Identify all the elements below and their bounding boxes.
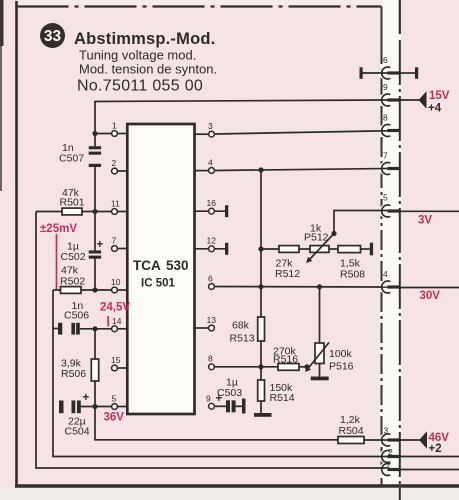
svg-text:IC 501: IC 501 xyxy=(141,278,175,290)
pin 7 xyxy=(118,248,128,250)
module edge white strip xyxy=(380,0,401,500)
wire 30V line right of boundary xyxy=(400,287,459,289)
wire R508 to terminator xyxy=(361,248,370,250)
connector 9 xyxy=(382,94,391,106)
wire R501 to pin 11 xyxy=(82,211,112,213)
svg-text:±25mV: ±25mV xyxy=(40,223,77,235)
frame: left border xyxy=(15,1,18,487)
svg-text:C504: C504 xyxy=(65,426,90,438)
svg-text:15: 15 xyxy=(111,355,121,365)
svg-text:3: 3 xyxy=(208,121,213,131)
wire R502 to pin 10 xyxy=(81,289,112,291)
op-amp IC U501 box TCA 530 xyxy=(127,124,194,414)
pin 13 xyxy=(195,327,209,329)
node pin1/C507 junction xyxy=(92,131,97,136)
pin 16 terminator bar xyxy=(225,205,228,217)
svg-text:R516: R516 xyxy=(273,354,298,366)
wire pin 6 row to connector 4 xyxy=(215,286,388,289)
svg-text:33: 33 xyxy=(44,28,62,45)
svg-text:C506: C506 xyxy=(64,310,89,322)
svg-text:No.75011 055 00: No.75011 055 00 xyxy=(77,78,203,95)
wire R506 column top xyxy=(94,329,96,359)
pin 1 xyxy=(118,133,128,135)
wire P512 wiper node up and right to connector 5 xyxy=(334,211,388,234)
46V supply arrow xyxy=(419,431,427,448)
potentiometer P516 xyxy=(315,343,324,364)
wire P516 column down from pin6 row xyxy=(319,287,321,343)
svg-text:R514: R514 xyxy=(270,392,295,404)
wire R501 row left xyxy=(36,211,62,213)
svg-text:2: 2 xyxy=(388,447,393,457)
svg-text:+: + xyxy=(216,393,223,405)
svg-text:R512: R512 xyxy=(275,268,300,280)
node R501/pin11/C502 junction xyxy=(92,209,97,214)
svg-text:1: 1 xyxy=(112,121,117,131)
potentiometer P516 wiper arrow xyxy=(308,343,329,369)
node pin6 row x261 junction xyxy=(258,284,263,289)
resistor R514 xyxy=(258,380,265,401)
node P512 wiper junction xyxy=(331,231,336,236)
wire C503 to terminator xyxy=(236,405,242,407)
svg-text:13: 13 xyxy=(207,315,217,325)
wire 3V line right of boundary xyxy=(400,210,459,212)
wire AFC line vertical x53 xyxy=(53,290,388,457)
test lead red line xyxy=(56,234,58,289)
wire connector 6 right bar stub xyxy=(400,72,415,74)
capacitor C504 plates xyxy=(59,401,64,414)
wire P512 to R508 xyxy=(329,248,338,250)
resistor R512 xyxy=(279,246,299,253)
node pin8 row x261 junction xyxy=(258,364,263,369)
wire R514 bottom to ground xyxy=(260,401,262,413)
svg-text:9: 9 xyxy=(383,82,388,92)
wire R506 column bottom xyxy=(94,381,96,407)
wire R512 row from column to box xyxy=(261,248,279,250)
svg-text:R501: R501 xyxy=(60,197,85,209)
resistor R506 xyxy=(91,359,98,381)
node R502/pin10 junction xyxy=(92,287,97,292)
pin 6 xyxy=(209,284,215,290)
resistor R502 xyxy=(61,287,82,294)
svg-text:10: 10 xyxy=(111,277,121,287)
frame: top dash-dot border xyxy=(17,5,382,7)
wire P516 bottom to ground xyxy=(319,364,321,377)
svg-text:+: + xyxy=(83,392,90,404)
svg-text:R506: R506 xyxy=(61,368,86,380)
ground below P516 xyxy=(311,377,329,381)
pin 16 xyxy=(195,210,226,212)
svg-text:2: 2 xyxy=(112,158,117,168)
svg-text:+: + xyxy=(97,239,104,251)
wire tuning line vertical x36 xyxy=(36,212,388,469)
svg-text:R513: R513 xyxy=(230,333,255,345)
pin 2 xyxy=(118,170,128,172)
test lead red tick xyxy=(107,316,109,327)
svg-text:100k: 100k xyxy=(329,348,353,360)
connector 6 xyxy=(382,67,391,79)
wire pin 8 row to R516 node xyxy=(215,366,278,368)
capacitor C503 plates xyxy=(226,400,230,412)
wire connector 2 row right of boundary xyxy=(400,456,459,458)
svg-text:9: 9 xyxy=(206,394,211,404)
chassis boundary line right solid top xyxy=(399,0,401,34)
connector 2 xyxy=(382,451,391,463)
wire C502 column top xyxy=(94,212,96,251)
pin 8 xyxy=(209,364,215,370)
wire divider column R513 to R516 row xyxy=(260,341,262,367)
svg-text:24,5V: 24,5V xyxy=(100,302,130,314)
wire R512 to P512 xyxy=(299,248,310,250)
pin 12 xyxy=(195,248,226,250)
svg-text:P516: P516 xyxy=(329,361,354,373)
node pin4 row / divider column junction xyxy=(258,167,263,172)
capacitor C502 plates xyxy=(89,250,101,253)
connector 6 left terminator bar xyxy=(360,67,363,79)
wire C507 bottom to R501 node xyxy=(94,167,96,212)
frame: bottom border xyxy=(15,484,459,488)
chassis boundary dash-dot line right xyxy=(399,40,401,500)
svg-text:7: 7 xyxy=(383,151,388,161)
svg-text:8: 8 xyxy=(383,113,388,123)
node pin6 row P516 column junction xyxy=(317,284,322,289)
pin 9 xyxy=(209,403,215,409)
svg-text:+4: +4 xyxy=(428,103,442,115)
svg-text:16: 16 xyxy=(207,198,217,208)
connector 8 xyxy=(382,125,391,137)
svg-text:R508: R508 xyxy=(340,269,365,281)
svg-text:R504: R504 xyxy=(339,425,364,437)
wire pin 3 row to connector 8 xyxy=(215,131,388,134)
pin 10 xyxy=(118,289,128,291)
svg-text:3: 3 xyxy=(384,426,389,436)
svg-text:C502: C502 xyxy=(61,251,86,263)
svg-text:3V: 3V xyxy=(418,215,432,227)
wire connector 1 row right of boundary xyxy=(400,469,459,471)
wire connector 6 left bar stub xyxy=(363,72,388,74)
wire C506 left plate to x53 line xyxy=(53,328,58,330)
node R516/P516 wiper junction xyxy=(304,364,309,369)
ground below R514 xyxy=(254,413,272,417)
svg-text:5: 5 xyxy=(383,193,388,203)
connector 3 xyxy=(382,434,391,446)
wire 36V column down to R504 row xyxy=(95,407,338,440)
resistor R513 xyxy=(258,317,265,341)
potentiometer P512 wiper arrow xyxy=(310,234,335,260)
wire divider column x261 pin4 row to R513 xyxy=(260,170,262,317)
connector 1 xyxy=(382,463,391,475)
wire R514 column from R516 row node xyxy=(260,367,262,380)
pin 12 terminator bar xyxy=(225,243,228,255)
svg-text:R502: R502 xyxy=(60,276,85,288)
pin 15 xyxy=(118,367,128,369)
capacitor C507 plates xyxy=(89,146,101,149)
wire R504 to connector 3 xyxy=(364,439,388,441)
wire R502 row left corner xyxy=(53,289,61,291)
wire 15V rail from C507/pin1 column to connector 9 xyxy=(95,100,388,146)
connector 5 xyxy=(382,205,391,217)
svg-text:4: 4 xyxy=(383,269,388,279)
pin 14 xyxy=(118,328,128,330)
R508 terminator bar xyxy=(370,243,373,256)
node C504/R506/pin5 junction xyxy=(92,404,97,409)
potentiometer P512 xyxy=(310,246,329,253)
capacitor C503 terminator bar xyxy=(242,399,246,414)
wire C506 to pin 14 xyxy=(80,328,113,330)
wire C502 column bottom xyxy=(94,259,96,290)
svg-text:6: 6 xyxy=(383,55,388,65)
svg-text:12: 12 xyxy=(207,236,217,246)
svg-text:6: 6 xyxy=(208,274,213,284)
connector 6 right terminator bar xyxy=(415,67,418,79)
node C506/R506/pin14 junction xyxy=(92,326,97,331)
section number badge 33 xyxy=(40,23,65,48)
svg-text:C507: C507 xyxy=(59,153,84,165)
wire pin 4 row to connector 7 xyxy=(215,169,388,171)
svg-text:68k: 68k xyxy=(232,320,250,332)
svg-text:Abstimmsp.-Mod.: Abstimmsp.-Mod. xyxy=(74,30,215,48)
wire pin 9 to C503 xyxy=(215,405,226,407)
capacitor C506 plates xyxy=(58,323,62,335)
svg-text:+2: +2 xyxy=(429,443,442,455)
pin 5 xyxy=(118,406,128,408)
svg-text:8: 8 xyxy=(208,354,213,364)
svg-text:7: 7 xyxy=(112,236,117,246)
svg-text:14: 14 xyxy=(112,316,122,326)
wire R516 to P516 wiper node xyxy=(299,366,307,368)
resistor R516 xyxy=(278,364,299,371)
pin 3 xyxy=(195,133,209,135)
connector 7 xyxy=(382,163,391,175)
module boundary dash-dot line left xyxy=(381,7,383,45)
svg-text:15V: 15V xyxy=(429,90,450,102)
svg-text:530: 530 xyxy=(166,258,189,273)
svg-text:4: 4 xyxy=(208,158,213,168)
pin 11 xyxy=(118,211,128,213)
svg-text:36V: 36V xyxy=(104,412,125,424)
resistor R501 xyxy=(62,208,82,215)
wire connector 9 to 15V arrow xyxy=(400,99,419,101)
svg-text:Tuning voltage mod.: Tuning voltage mod. xyxy=(79,48,196,63)
svg-text:P512: P512 xyxy=(304,232,329,244)
wire pin 1 to column xyxy=(95,133,112,135)
svg-text:TCA: TCA xyxy=(133,258,161,273)
connector 4 xyxy=(382,281,391,293)
connector backing gaps xyxy=(380,65,396,81)
svg-text:30V: 30V xyxy=(420,290,441,302)
resistor R508 xyxy=(338,246,361,253)
svg-text:Mod. tension de synton.: Mod. tension de synton. xyxy=(79,62,217,77)
wire C504 to pin 5 xyxy=(81,406,112,408)
svg-text:5: 5 xyxy=(112,394,117,404)
resistor R504 xyxy=(338,437,364,444)
scan edge smudge top-left xyxy=(0,0,4,46)
node R512 row junction xyxy=(258,246,263,251)
pin 4 xyxy=(195,170,209,172)
light band below bottom border xyxy=(0,488,459,500)
svg-text:11: 11 xyxy=(111,199,120,209)
15V supply arrow xyxy=(419,91,427,108)
wire connector 3 to 46V arrow xyxy=(400,439,420,441)
